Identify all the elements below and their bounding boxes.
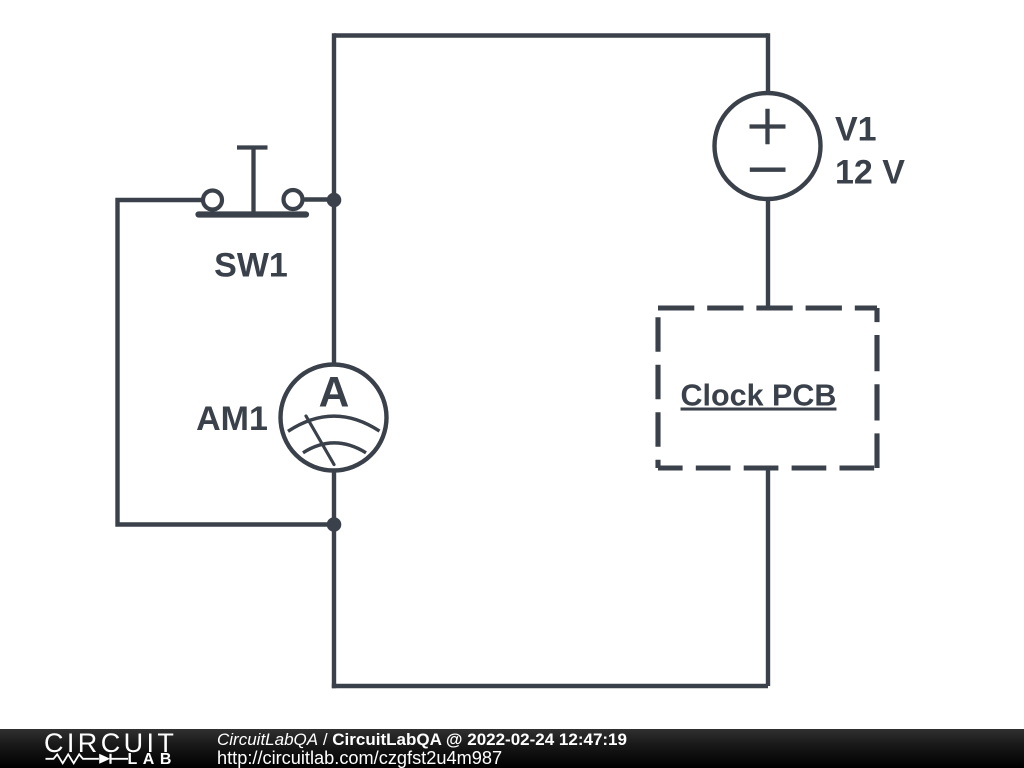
wire SW1 right terminal to junction <box>305 197 335 201</box>
svg-text:AM1: AM1 <box>196 400 268 438</box>
junction dot upper (SW1/ammeter node) <box>327 193 342 208</box>
wire right vertical (top wire down to V1) <box>766 33 770 94</box>
SW1 left terminal <box>203 191 222 210</box>
Clock PCB box bottom edge <box>658 465 877 470</box>
svg-text:LAB: LAB <box>128 751 177 768</box>
svg-text:V1: V1 <box>835 111 877 149</box>
wire lower junction down to bottom wire <box>332 525 336 689</box>
meter needle <box>306 416 334 465</box>
wire top horizontal <box>334 33 768 37</box>
junction dot lower (ammeter/left branch node) <box>327 517 342 532</box>
footer attribution line <box>217 731 627 748</box>
SW1 plunger cap <box>237 145 268 149</box>
pushbutton SW1 <box>199 148 307 215</box>
Clock PCB box left edge <box>655 308 660 468</box>
ammeter AM1 <box>281 365 387 471</box>
logo resistor zigzag <box>46 754 99 763</box>
Clock PCB dashed box <box>658 308 877 468</box>
voltage source V1 <box>715 93 821 199</box>
logo diode <box>99 754 110 764</box>
SW1 plunger stem <box>251 148 255 212</box>
meter scale arc lower <box>303 443 366 453</box>
wire Clock PCB bottom to bottom wire <box>766 468 770 686</box>
SW1 actuator bar <box>199 211 307 217</box>
CircuitLab logo <box>0 729 190 768</box>
wire bottom horizontal <box>332 684 768 688</box>
svg-text:A: A <box>319 370 350 417</box>
svg-text:12 V: 12 V <box>835 153 905 191</box>
wire ammeter bottom to lower junction <box>332 470 336 525</box>
wire V1 bottom to Clock PCB top <box>766 198 770 306</box>
footer url line <box>217 750 502 767</box>
Clock PCB box top edge <box>658 305 877 310</box>
footer bar <box>0 729 1024 768</box>
meter scale arc upper <box>288 416 380 431</box>
svg-text:SW1: SW1 <box>214 247 288 285</box>
Clock PCB box right edge <box>874 308 879 468</box>
SW1 right terminal <box>284 190 303 209</box>
svg-text:Clock PCB: Clock PCB <box>681 379 837 413</box>
wire left vertical (top wire down to ammeter) <box>332 33 336 365</box>
wire left branch: SW1 left terminal, down, and across to lower junction <box>118 200 335 525</box>
logo diode lead <box>111 758 129 760</box>
